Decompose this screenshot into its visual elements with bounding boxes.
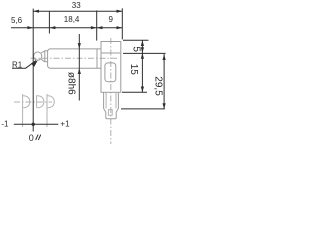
dim 5/15 line	[141, 40, 143, 92]
detail -1 travel line	[22, 94, 24, 127]
shaft end face with chamfer	[45, 49, 50, 68]
dim 5,6 arrow right-pointing at x33	[27, 26, 33, 29]
dim 9 right arrow at x122.3	[117, 26, 123, 29]
dim 29,5 line	[163, 54, 165, 109]
dim 15 bottom arrow	[141, 87, 144, 93]
dim 9 left arrow at x96.7	[97, 26, 103, 29]
body slot	[105, 63, 116, 82]
connector plug	[104, 92, 119, 118]
detail ball at +1	[48, 96, 55, 108]
dim 33 arrows	[33, 10, 39, 13]
svg-text:+1: +1	[60, 119, 70, 128]
dia 8h6 dim line upper	[78, 34, 80, 68]
dim 15 top arrow	[141, 53, 144, 59]
dim 5 bottom arrow	[141, 47, 144, 53]
probe ball tip R1	[34, 52, 42, 60]
detail centerline	[14, 101, 52, 103]
right extension y=92.3	[122, 91, 147, 93]
body block	[101, 42, 121, 93]
R1 underline and leader	[12, 61, 36, 69]
right extension y=40.2	[123, 39, 149, 41]
R1 arrowhead	[31, 61, 38, 67]
svg-text:18,4: 18,4	[64, 15, 80, 24]
svg-text:29,5: 29,5	[153, 76, 164, 96]
dim 18,4 right arrow at x96.7	[91, 26, 97, 29]
svg-text:-1: -1	[1, 119, 9, 128]
dia arrow up	[78, 68, 81, 74]
dia 8h6 dim line lower tail	[78, 68, 80, 100]
detail mid stem	[36, 95, 38, 108]
svg-text:15: 15	[128, 64, 139, 76]
cable exit box	[108, 110, 112, 116]
extension line x=122.3	[121, 8, 123, 39]
svg-text:33: 33	[72, 1, 81, 10]
probe horizontal centerline	[31, 57, 119, 59]
svg-text:0: 0	[29, 133, 34, 143]
zero dot	[32, 123, 35, 126]
body lid seam	[101, 52, 121, 54]
probe shaft o8h6	[49, 49, 101, 68]
plug inner lines	[106, 92, 116, 108]
extension line x=33 zero plane	[32, 9, 34, 132]
dim 5 top arrow	[141, 40, 144, 46]
dim 29,5 bottom arrow	[163, 103, 166, 109]
dia arrow down	[78, 43, 81, 49]
hatch mark after 0	[36, 135, 41, 140]
svg-text:9: 9	[109, 15, 114, 24]
body vertical centerline	[110, 38, 112, 144]
travel axis	[14, 123, 59, 125]
dim 18,4 left arrow at x49.4	[50, 26, 56, 29]
probe cone	[41, 51, 45, 62]
svg-text:ø8h6: ø8h6	[66, 72, 77, 95]
dim 29,5 top arrow	[163, 54, 166, 60]
right extension y=53	[123, 52, 166, 54]
shaft seam	[96, 49, 98, 68]
dimension row2 line	[11, 27, 122, 29]
svg-text:5: 5	[131, 46, 142, 52]
detail ball at mid	[37, 96, 44, 108]
detail ball at -1	[23, 96, 30, 108]
dimension 33 line	[33, 10, 122, 12]
detail +1 travel line	[46, 94, 48, 127]
extension line x=96.7	[96, 10, 98, 40]
svg-text:5,6: 5,6	[11, 16, 23, 25]
right extension y=108.8	[121, 108, 165, 110]
extension line x=49.4	[48, 12, 50, 34]
